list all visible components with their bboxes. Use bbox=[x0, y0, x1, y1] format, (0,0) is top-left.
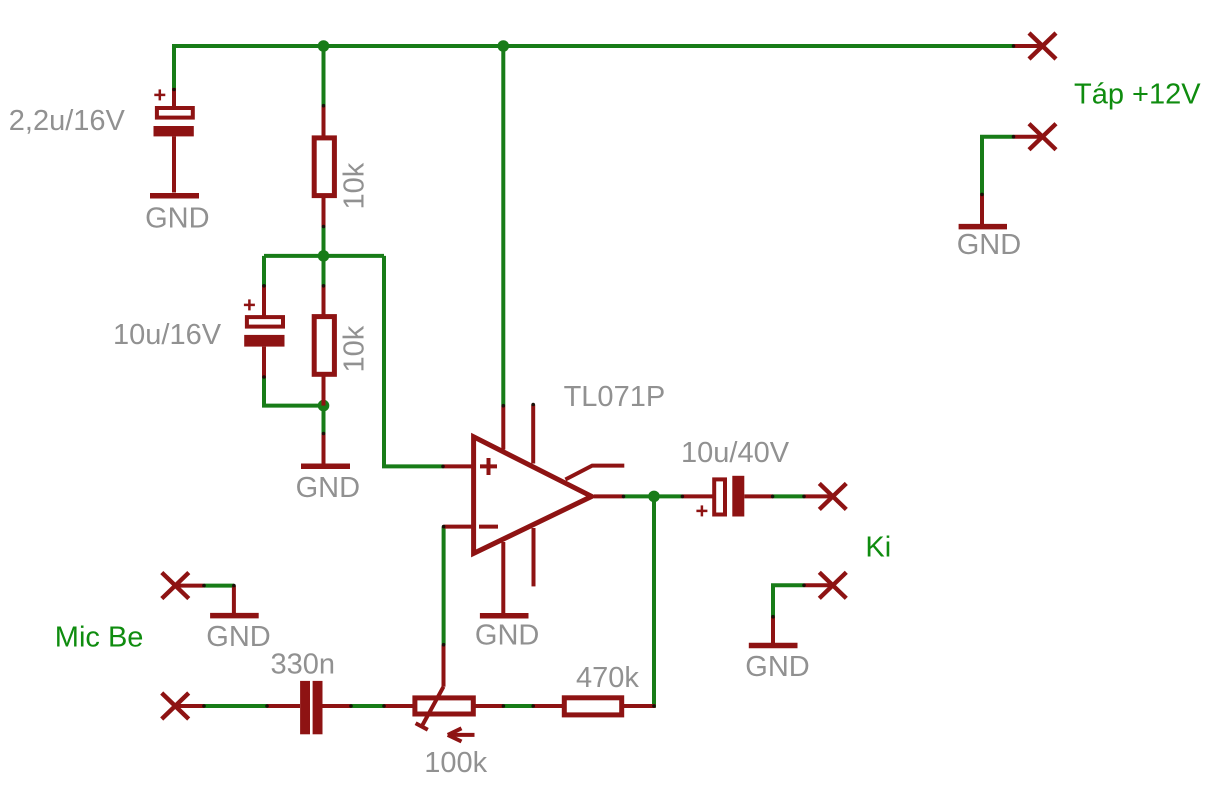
potentiometer adjustment arrow bbox=[448, 728, 475, 741]
svg-text:GND: GND bbox=[475, 620, 539, 652]
ground pin at supply bbox=[980, 194, 984, 224]
wire divider to op-amp +input bbox=[384, 256, 443, 467]
svg-text:470k: 470k bbox=[576, 662, 639, 694]
ground symbol at mic bbox=[210, 613, 259, 619]
wire mic gnd X to GND bbox=[204, 584, 234, 588]
junction at output node bbox=[648, 491, 660, 503]
wire mic X to 330n bbox=[204, 704, 267, 708]
pinhead X supply ground bbox=[1014, 124, 1057, 150]
wire C2 bottom to lower node bbox=[264, 377, 324, 406]
wire output node down to 470k bbox=[652, 496, 656, 707]
svg-text:10k: 10k bbox=[339, 162, 371, 209]
wire feedback from -input down to pot wiper bbox=[442, 527, 446, 645]
pinhead X mic input bbox=[162, 693, 204, 719]
wire Ki X to C3 bbox=[773, 494, 804, 498]
op-amp -input pin bbox=[444, 525, 473, 529]
capacitor C1 2,2u/16V bbox=[154, 88, 194, 193]
capacitor C4 330n bbox=[300, 681, 322, 734]
svg-text:GND: GND bbox=[145, 202, 209, 234]
svg-text:10u/16V: 10u/16V bbox=[113, 319, 222, 351]
svg-text:GND: GND bbox=[206, 621, 270, 653]
resistor R3 470k bbox=[533, 698, 655, 715]
ground symbol at divider bbox=[301, 463, 350, 469]
wire output node horizontal bbox=[624, 494, 683, 498]
svg-text:2,2u/16V: 2,2u/16V bbox=[9, 105, 126, 137]
ground pin at mic bbox=[232, 586, 236, 614]
svg-text:Mic Be: Mic Be bbox=[55, 622, 144, 654]
wire R1 bottom to divider node bbox=[322, 227, 326, 258]
svg-text:330n: 330n bbox=[271, 649, 336, 681]
ground pin at Ki bbox=[771, 617, 775, 644]
junction on top rail at op-amp column bbox=[498, 40, 510, 52]
wire between pot and 470k bbox=[503, 704, 533, 708]
wire supply gnd X to GND bbox=[982, 137, 1014, 195]
wire V+ drop to R1 bbox=[322, 46, 326, 106]
svg-text:GND: GND bbox=[745, 651, 809, 683]
svg-text:GND: GND bbox=[957, 229, 1021, 261]
potentiometer R4 wiper bbox=[416, 645, 444, 730]
svg-text:10k: 10k bbox=[339, 325, 371, 372]
capacitor C2 10u/16V bbox=[244, 285, 285, 378]
pinhead X mic ground bbox=[162, 573, 204, 599]
wire divider node to R2 top bbox=[322, 256, 326, 286]
junction at lower divider node bbox=[318, 400, 330, 412]
wire lower node to GND bbox=[322, 406, 326, 434]
capacitor C3 10u/40V bbox=[682, 476, 773, 517]
resistor R2 10k bbox=[314, 285, 334, 406]
op-amp pin 5 stub bottom bbox=[532, 528, 536, 586]
wire endpoint dots bbox=[172, 44, 1015, 708]
pinhead X output Ki bbox=[804, 483, 846, 509]
capacitor C4 pins bbox=[267, 704, 351, 708]
wire net V+ top rail bbox=[174, 46, 1014, 91]
op-amp output pin bbox=[594, 494, 624, 498]
wire Ki gnd X to GND bbox=[773, 585, 804, 616]
wire V+ drop to op-amp pin 7 bbox=[501, 46, 505, 406]
junction on top rail at C1/R1 column bbox=[318, 40, 330, 52]
junction at divider node bbox=[318, 250, 330, 262]
op-amp V- pin 4 bbox=[501, 542, 505, 613]
svg-text:10u/40V: 10u/40V bbox=[681, 437, 790, 469]
pinhead X Ki ground bbox=[804, 572, 846, 598]
op-amp pin 8 stub top bbox=[531, 405, 535, 464]
potentiometer R4 100k body bbox=[384, 698, 503, 714]
svg-text:100k: 100k bbox=[424, 747, 487, 779]
op-amp V+ pin 7 bbox=[501, 406, 505, 450]
op-amp U1 TL071P triangle bbox=[474, 437, 592, 554]
ground symbol below C1 bbox=[150, 193, 199, 199]
svg-text:GND: GND bbox=[296, 472, 360, 504]
ground symbol at Ki bbox=[749, 643, 798, 649]
svg-text:TL071P: TL071P bbox=[564, 381, 666, 413]
svg-text:Táp +12V: Táp +12V bbox=[1074, 79, 1201, 111]
op-amp balance pin upper right bbox=[565, 466, 624, 480]
wire divider node horizontal bbox=[264, 254, 384, 258]
resistor R1 10k bbox=[314, 106, 334, 227]
op-amp +input pin bbox=[443, 464, 473, 468]
svg-text:Ki: Ki bbox=[865, 532, 891, 564]
wire 330n to pot bbox=[351, 704, 384, 708]
wire divider node to C2 top bbox=[262, 256, 266, 286]
ground symbol at supply bbox=[959, 224, 1007, 230]
ground pin at lower divider node bbox=[322, 433, 326, 464]
pinhead X supply +12V bbox=[1014, 33, 1057, 59]
ground symbol at op-amp bbox=[480, 613, 529, 619]
